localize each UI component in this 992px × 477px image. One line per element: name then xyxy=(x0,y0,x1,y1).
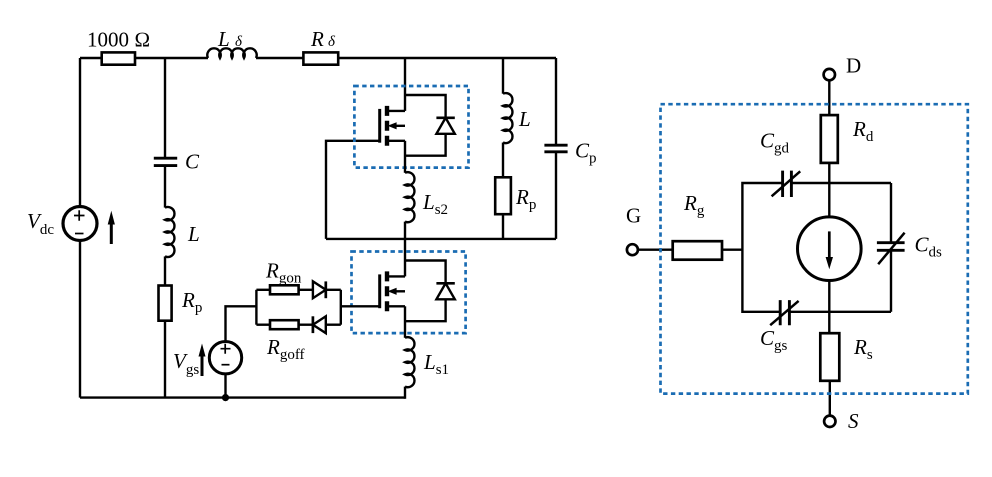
wire top rail right xyxy=(338,57,556,59)
mosfet Q2 xyxy=(380,106,405,146)
current source circle xyxy=(798,217,862,281)
wire Doff right xyxy=(326,324,341,326)
junction node dot xyxy=(222,394,229,401)
wire source Q1 xyxy=(404,306,406,338)
svg-text:L: L xyxy=(518,107,531,131)
svg-text:δ: δ xyxy=(328,34,336,50)
resistor Rp load xyxy=(495,177,511,214)
body diode Q2 xyxy=(405,95,455,156)
wire L to Rp xyxy=(164,256,166,285)
wire top to source xyxy=(828,183,830,217)
svg-text:Rd: Rd xyxy=(852,117,874,145)
wire Rgon to diode xyxy=(299,289,313,291)
wire diode join vertical xyxy=(340,290,342,325)
svg-text:Rgon: Rgon xyxy=(265,259,302,287)
capacitor Cp xyxy=(544,145,567,152)
svg-text:Rp: Rp xyxy=(515,185,536,213)
wire C branch upper xyxy=(164,58,166,158)
wire top rail mid1 xyxy=(135,57,208,59)
wire left vertical lower xyxy=(79,241,81,398)
wire square top-left xyxy=(742,183,782,312)
svg-text:Vgs: Vgs xyxy=(173,349,199,378)
inductor Ls1 xyxy=(405,337,414,387)
mosfet Q1 xyxy=(380,271,405,311)
svg-text:R: R xyxy=(310,27,324,51)
svg-text:Rp: Rp xyxy=(181,288,202,316)
capacitor Cgd xyxy=(772,171,801,197)
resistor Rg xyxy=(673,241,722,260)
resistor 1000ohm xyxy=(102,52,135,64)
wire Rgon left xyxy=(256,289,270,291)
diode Don xyxy=(313,281,326,298)
terminal G xyxy=(627,244,638,255)
resistor Rdelta xyxy=(303,52,338,64)
svg-text:Cds: Cds xyxy=(915,233,943,261)
wire top gate down xyxy=(326,141,380,239)
wire Rp to rail xyxy=(164,321,166,398)
wire Rgoff left xyxy=(256,324,270,326)
wire square top-right xyxy=(791,182,891,184)
svg-text:Rs: Rs xyxy=(853,335,873,363)
wire Rs to S xyxy=(829,381,831,416)
body diode Q1 xyxy=(405,261,455,322)
svg-text:δ: δ xyxy=(235,34,243,50)
inductor L left chain xyxy=(165,207,174,257)
arrow Vgs xyxy=(199,344,206,377)
capacitor Cgs xyxy=(770,300,798,325)
wire Cp branch lower xyxy=(555,152,557,239)
wire Ls1 to rail xyxy=(404,387,406,399)
wire Rp load to rail xyxy=(502,214,504,239)
wire L to Rp load xyxy=(502,143,504,178)
svg-text:Ls2: Ls2 xyxy=(422,190,448,218)
svg-text:Rg: Rg xyxy=(683,191,705,219)
wire square right upper xyxy=(890,183,892,243)
inductor Ldelta xyxy=(207,48,256,58)
wire square right lower xyxy=(890,250,892,311)
svg-text:Cp: Cp xyxy=(575,139,597,167)
inductor L load xyxy=(502,58,504,94)
terminal S xyxy=(824,416,835,427)
Vgs plus sign xyxy=(221,344,231,354)
svg-text:Vdc: Vdc xyxy=(27,209,54,238)
wire D to Rd xyxy=(828,80,830,115)
Vdc plus sign xyxy=(74,210,85,220)
Vdc minus sign xyxy=(75,233,84,235)
wire mid rail xyxy=(326,238,556,240)
terminal D xyxy=(824,69,835,80)
svg-text:D: D xyxy=(846,54,861,78)
wire Don right xyxy=(326,289,341,291)
wire top rail mid2 xyxy=(256,57,303,59)
svg-text:S: S xyxy=(848,409,859,433)
Vgs minus sign xyxy=(222,364,230,366)
dashed box Q1 xyxy=(352,252,466,334)
capacitor Cds xyxy=(877,233,905,265)
wire source bottom xyxy=(828,281,830,334)
wire source Q2 xyxy=(404,141,406,173)
wire drain Q2 xyxy=(404,58,406,111)
source Vgs circle xyxy=(209,342,241,374)
resistor Rgon xyxy=(270,285,299,294)
capacitor C xyxy=(154,158,177,165)
svg-text:Rgoff: Rgoff xyxy=(266,335,305,363)
arrow current Vdc xyxy=(108,211,115,244)
svg-text:L: L xyxy=(187,222,200,246)
svg-text:G: G xyxy=(626,204,641,228)
wire Ls2 to Q1 drain xyxy=(404,222,406,277)
wire split vertical xyxy=(255,290,257,325)
dashed box model xyxy=(661,104,968,393)
svg-text:Cgd: Cgd xyxy=(760,129,790,157)
wire G to Rg xyxy=(638,248,673,250)
inductor Ls2 xyxy=(405,172,414,222)
svg-text:Cgs: Cgs xyxy=(760,326,788,354)
wire Rd to square xyxy=(828,163,830,183)
resistor Rp left chain xyxy=(159,286,172,321)
wire Vgs top xyxy=(226,306,257,341)
wire Cp branch upper xyxy=(555,58,557,145)
wire square bottom-right xyxy=(789,311,891,313)
wire left vertical upper xyxy=(79,58,81,207)
wire Rgoff to diode xyxy=(299,324,313,326)
wire bottom rail xyxy=(80,396,405,398)
wire top rail left xyxy=(80,57,102,59)
svg-text:C: C xyxy=(185,150,200,174)
resistor Rs xyxy=(820,333,839,381)
wire Vgs bottom xyxy=(224,374,226,398)
source Vdc circle xyxy=(63,207,97,241)
wire gate Q1 xyxy=(341,305,380,307)
wire Rg to square xyxy=(722,248,742,250)
svg-text:Ls1: Ls1 xyxy=(423,350,449,378)
resistor Rd xyxy=(821,115,838,163)
svg-text:L: L xyxy=(217,27,230,51)
diode Doff xyxy=(313,316,326,333)
resistor Rgoff xyxy=(270,320,299,329)
svg-text:1000 Ω: 1000 Ω xyxy=(87,28,150,52)
dashed box Q2 xyxy=(354,86,468,168)
wire C to L xyxy=(164,166,166,208)
current source arrow xyxy=(826,231,833,269)
